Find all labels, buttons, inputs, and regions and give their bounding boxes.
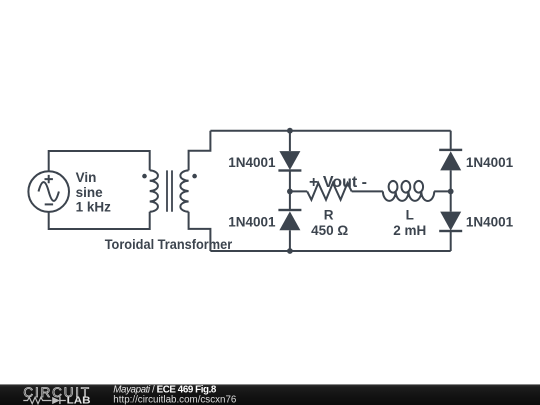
svg-text:R: R (324, 207, 334, 222)
wire top rail to D1 (289, 131, 291, 151)
svg-text:1N4001: 1N4001 (466, 214, 514, 229)
svg-text:Toroidal Transformer: Toroidal Transformer (105, 237, 233, 252)
svg-text:http://circuitlab.com/cscxn76: http://circuitlab.com/cscxn76 (113, 394, 237, 405)
wire D3 to D4 through node VoutM (450, 170, 452, 211)
svg-text:2 mH: 2 mH (393, 223, 426, 238)
wire source bottom to primary bottom (49, 212, 150, 229)
wire secondary top to top rail (189, 131, 211, 171)
svg-text:1N4001: 1N4001 (228, 214, 276, 229)
diode D1 top-left (278, 151, 301, 172)
transformer T1 primary winding (150, 170, 158, 211)
wire resistor R to inductor L (352, 190, 383, 192)
junction node VoutM (448, 189, 454, 195)
wire D1 to node VoutP (289, 171, 291, 192)
label V1 Vin sine 1 kHz (76, 170, 112, 214)
inductor L coil (383, 181, 434, 201)
resistor R zigzag (307, 183, 352, 200)
wire node VoutP to D2 (289, 191, 291, 210)
diode D4 bottom-right (439, 212, 462, 233)
wire inductor L to node VoutM (434, 190, 451, 192)
wire secondary bottom to bottom rail (189, 212, 211, 251)
logo resistor-diode glyph (23, 397, 66, 404)
wire node VoutP to resistor R (290, 190, 307, 192)
transformer T1 secondary winding (180, 170, 188, 211)
wire D2 to bottom rail (289, 230, 291, 251)
wire D4 to bottom rail (450, 231, 452, 251)
svg-text:450 Ω: 450 Ω (311, 223, 348, 238)
junction node bottom rail / D2 (287, 248, 293, 254)
wire top rail (210, 130, 450, 132)
svg-text:Vin: Vin (76, 170, 97, 185)
svg-text:LAB: LAB (67, 396, 91, 405)
voltage source V1 (28, 171, 69, 212)
svg-text:1 kHz: 1 kHz (76, 199, 112, 214)
transformer T1 secondary phase dot (192, 174, 197, 179)
svg-text:L: L (406, 207, 414, 222)
wire source top to primary top (49, 151, 150, 171)
wire bottom rail (210, 250, 450, 252)
svg-text:+ Vout -: + Vout - (309, 174, 367, 191)
junction node top rail / D1 (287, 128, 293, 134)
diode D3 top-right (439, 149, 462, 171)
junction node VoutP (287, 189, 293, 195)
svg-text:1N4001: 1N4001 (228, 155, 276, 170)
wire top rail to D3 (450, 131, 452, 150)
svg-text:sine: sine (76, 185, 104, 200)
transformer T1 core (167, 170, 172, 211)
transformer T1 primary phase dot (142, 174, 147, 179)
footer bar (0, 384, 540, 405)
svg-text:1N4001: 1N4001 (466, 155, 514, 170)
diode D2 bottom-left (278, 209, 301, 231)
